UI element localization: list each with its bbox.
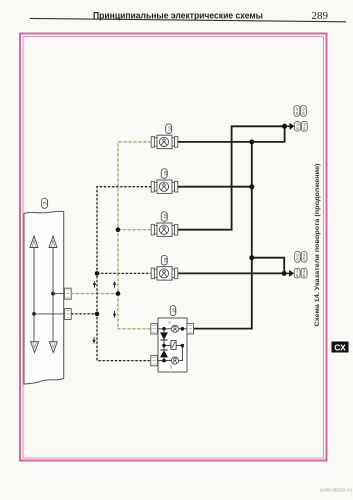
pin 1 of component 2	[65, 288, 72, 299]
khaki net dashes	[71, 142, 151, 329]
khaki net base: lamp1, lamp3, pin1, flasher top pin	[71, 142, 151, 329]
svg-text:Схема 14. Указатели поворота (: Схема 14. Указатели поворота (продолжени…	[314, 164, 321, 327]
wire lamp2 stub	[178, 186, 252, 188]
wire jog to bottom node	[252, 258, 284, 274]
svg-text:8: 8	[169, 320, 171, 324]
svg-text:18: 18	[163, 257, 168, 263]
indicator lamp top	[171, 325, 178, 332]
lamp L1	[151, 124, 178, 149]
pin 2 of component 2	[65, 309, 72, 320]
diode D2 (up)	[163, 346, 165, 350]
CX tab	[332, 342, 349, 353]
node dark/lamp4	[95, 271, 100, 276]
unit 8 box	[158, 318, 187, 372]
wire line B (flasher riser)	[194, 142, 252, 329]
svg-text:289: 289	[312, 10, 329, 22]
svg-text:18: 18	[163, 214, 168, 220]
junction dots	[249, 139, 254, 144]
down arrow contact a	[31, 342, 39, 353]
lamp L4	[151, 255, 178, 280]
wire lamp1 to top node	[178, 126, 285, 142]
wire line1	[33, 248, 35, 342]
badge 8	[170, 306, 176, 316]
right margin vertical caption	[314, 164, 321, 327]
svg-text:avto-obzor.ru: avto-obzor.ru	[320, 488, 352, 494]
top-right off-page arrow	[287, 123, 294, 130]
top internal wire	[157, 328, 187, 330]
badge 2	[42, 198, 48, 208]
node top-left	[162, 327, 166, 331]
dark net dashes	[71, 187, 151, 361]
pink outer frame	[20, 34, 327, 461]
node on line1	[32, 312, 36, 316]
direction arrow down on dark wire	[92, 337, 95, 344]
svg-text:СХ: СХ	[334, 343, 346, 353]
svg-text:18: 18	[167, 126, 172, 132]
svg-text:5: 5	[170, 366, 172, 370]
lamp L2	[151, 169, 178, 194]
component 2 body	[24, 211, 64, 384]
wire to pin 2	[34, 313, 65, 315]
pink inner frame	[23, 37, 324, 459]
direction arrow down on khaki wire	[113, 311, 116, 318]
unit 8 right pin	[187, 324, 194, 334]
up arrow contact b	[49, 236, 57, 248]
right internal column	[179, 346, 183, 361]
down arrow contact b	[49, 342, 57, 353]
node top-right	[181, 327, 185, 331]
lamp L3	[151, 212, 178, 237]
top-right connector badges	[294, 105, 307, 131]
unit 8 left pin bottom	[151, 355, 158, 365]
node on line2	[51, 292, 55, 296]
bottom internal wire	[157, 360, 171, 362]
diode D1 (down)	[163, 329, 165, 333]
dark net base: lamp2, lamp4, pin2, flasher bottom pin	[71, 187, 151, 361]
node khaki/lamp3	[116, 227, 121, 232]
up arrow contact a	[30, 236, 38, 248]
bottom-right connector badges	[294, 251, 307, 278]
node dark/pin2	[95, 312, 100, 317]
indicator lamp bottom	[171, 357, 178, 364]
bottom-right off-page arrow	[287, 270, 294, 277]
wire to pin 1	[53, 293, 65, 295]
direction arrow up on dark wire	[93, 281, 96, 288]
header rule	[30, 18, 346, 21]
svg-text:18: 18	[163, 171, 168, 177]
wire line2	[52, 248, 54, 342]
wire lamp4 to bottom node	[178, 272, 284, 274]
node khaki/pin1	[116, 291, 121, 296]
unit 8 left pin top	[151, 324, 158, 334]
svg-text:18: 18	[172, 308, 177, 314]
wire line A (lamp3 riser)	[178, 126, 285, 229]
direction arrow up on khaki wire	[113, 281, 116, 288]
middle internal wire	[164, 345, 182, 347]
resistor R	[171, 340, 176, 349]
